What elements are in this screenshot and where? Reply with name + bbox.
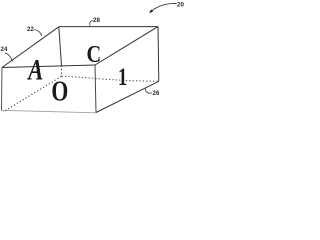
wire: interior vertical dotted part [61, 66, 63, 77]
wire: left top receding edge [2, 27, 59, 68]
wire: bottom right receding edge [96, 81, 159, 112]
leader for 22 [34, 30, 42, 37]
svg-text:C: C [87, 40, 102, 67]
svg-text:20: 20 [177, 1, 184, 8]
wire: front bottom edge [2, 110, 97, 113]
leader arrow for 20 [152, 3, 176, 10]
svg-text:O: O [51, 74, 68, 107]
svg-text:A: A [27, 52, 44, 86]
wire: back top edge [59, 26, 158, 28]
wire: interior vertical solid part [59, 27, 62, 66]
wire: right top receding edge [95, 27, 158, 65]
leader for 24 [5, 53, 13, 62]
wire: front top edge [2, 65, 95, 68]
svg-text:24: 24 [1, 46, 8, 53]
wire: hidden edge to back bottom right (dotted) [62, 76, 159, 81]
leader for 28 [90, 20, 93, 26]
svg-text:28: 28 [93, 17, 100, 24]
leader for 26 [145, 89, 152, 94]
svg-text:26: 26 [153, 90, 160, 97]
wire: hidden edge to front bottom left (dotted) [3, 76, 62, 112]
wire: front left vertical edge [1, 68, 4, 111]
wire: front right vertical edge [95, 65, 96, 113]
svg-text:1: 1 [118, 62, 127, 91]
svg-text:22: 22 [27, 26, 34, 33]
wire: back right vertical edge [157, 27, 160, 82]
